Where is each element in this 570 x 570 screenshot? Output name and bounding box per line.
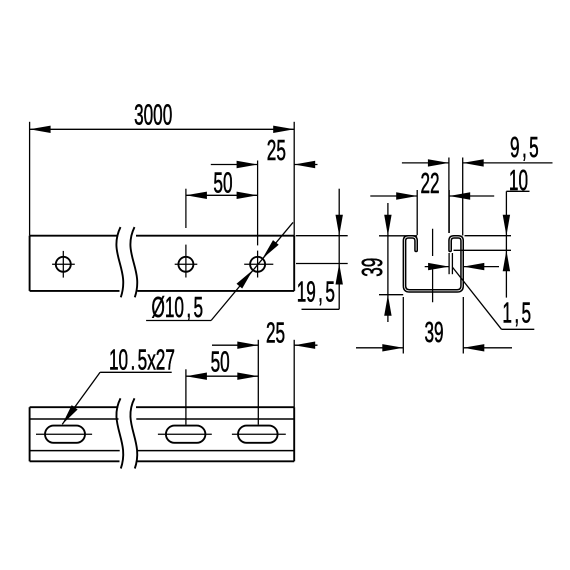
svg-text:25: 25 (266, 317, 285, 349)
dim 25 bottom dimension line with outside arrows (212, 342, 318, 349)
dim 25 top dimension line with outside arrows (211, 161, 318, 168)
dim 39 height arrowheads (384, 215, 391, 316)
svg-text:50: 50 (213, 167, 232, 199)
svg-text:25: 25 (267, 134, 286, 166)
hole 1 centerlines (52, 251, 75, 278)
svg-text:39: 39 (425, 317, 444, 349)
dim 39 height extension lines (379, 236, 417, 295)
dim 50 bottom extension line (185, 369, 187, 424)
dim 39 width extension lines (403, 297, 463, 354)
slot 1 centerline (36, 433, 92, 435)
dim 50 top dimension line (186, 192, 258, 199)
slot 3 centerline (232, 433, 286, 435)
hole 2 (round hole middle) (178, 257, 193, 272)
svg-text:Ø10,5: Ø10,5 (152, 292, 204, 324)
svg-text:50: 50 (211, 346, 230, 378)
dim 3000 arrowheads (30, 126, 295, 133)
slot 2 (oblong hole middle) (166, 426, 205, 443)
label 10.5x27 leader and shelf (62, 372, 171, 424)
leader arrowheads at hole edge (237, 240, 279, 288)
dim 9,5 dimension line with outside arrows (402, 159, 553, 166)
dim 50 bottom dimension line (186, 373, 258, 380)
break symbol wavy lines (side view) (116, 227, 137, 297)
dim 22 extension lines (417, 190, 449, 235)
dim 22 dimension line with outside arrows (370, 192, 494, 199)
break symbol wavy lines (plan view) (116, 398, 137, 468)
dim 3000 extension lines (30, 122, 295, 236)
dim 9,5 extension lines (449, 158, 463, 236)
dim 39 width dimension line with outside arrows (356, 344, 512, 351)
dim 1,5 dimension line with outside arrows (425, 263, 499, 270)
dim 19,5 dimension line and shelf (302, 189, 340, 310)
svg-text:9,5: 9,5 (510, 131, 539, 163)
dim 3000 dimension line (30, 128, 295, 130)
dim 10 arrowheads (503, 215, 510, 272)
channel cross-section profile (C-strut with inturned lips) (405, 237, 463, 291)
label 10.5x27 leader arrowhead (62, 405, 77, 424)
hole 2 centerlines (175, 189, 198, 278)
svg-text:10.5x27: 10.5x27 (109, 344, 175, 376)
dim 39 height dimension line (387, 203, 389, 322)
svg-text:22: 22 (421, 168, 440, 200)
dim 10 extension lines (454, 236, 512, 251)
dim 1,5 extension lines (lip wall thickness) (449, 253, 452, 274)
svg-text:10: 10 (509, 164, 528, 196)
hole 3 centerlines (244, 161, 273, 278)
rail side view body (top-left view) outline (30, 236, 295, 291)
slot 3 (oblong hole right) (238, 426, 278, 443)
hole 3 (round hole right) (250, 257, 265, 272)
hole 1 (round hole left) (56, 257, 71, 272)
slot 2 centerline (158, 433, 212, 435)
dim 19,5 extension lines (296, 236, 348, 264)
channel vertical centerline (432, 229, 434, 302)
leader line for hole diameter (146, 222, 293, 320)
dim 25 bottom extension lines (258, 340, 294, 425)
plan view inner edge lines (channel lips seen from top) (30, 419, 295, 451)
dim 19,5 arrowheads (336, 215, 343, 285)
dim 1,5 leader and shelf (453, 267, 535, 329)
rail plan view body (bottom view) outline (30, 407, 295, 461)
dim 10 dimension line and text shelf (506, 191, 529, 297)
svg-text:1,5: 1,5 (502, 297, 531, 329)
svg-text:39: 39 (357, 258, 389, 277)
svg-text:3000: 3000 (134, 99, 172, 131)
slot 1 (oblong hole 10.5x27) (45, 426, 85, 443)
